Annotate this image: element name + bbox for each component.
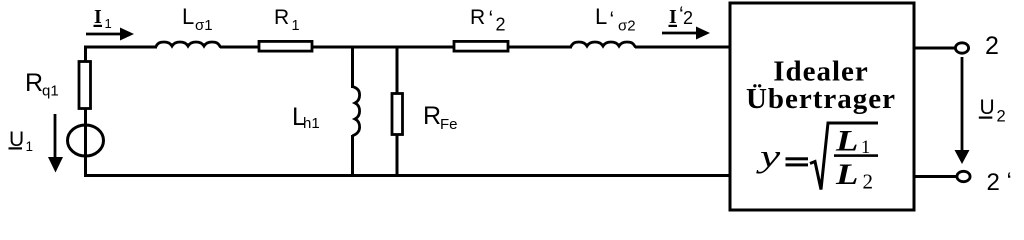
- svg-text:L: L: [595, 4, 607, 29]
- svg-text:1: 1: [105, 16, 112, 31]
- wire between R1 and R'2: [313, 46, 453, 49]
- svg-text:q1: q1: [42, 83, 59, 100]
- svg-text:2: 2: [683, 8, 693, 28]
- voltage arrow U2: [955, 57, 970, 164]
- svg-text:R: R: [470, 6, 485, 29]
- terminal 2 circle: [955, 43, 968, 53]
- svg-text:2: 2: [997, 108, 1006, 126]
- svg-text:h1: h1: [303, 115, 320, 132]
- wire top-left corner vertical: [84, 47, 87, 62]
- svg-text:1: 1: [292, 18, 300, 34]
- resistor Rq1: [79, 62, 91, 109]
- terminal 2' circle: [957, 171, 970, 181]
- bottom wire: [84, 174, 730, 177]
- svg-text:y: y: [755, 139, 780, 174]
- svg-text:‘: ‘: [1007, 168, 1012, 195]
- radical sign: [810, 123, 878, 190]
- svg-text:L: L: [182, 4, 194, 29]
- wire between Lsigma1 and R1: [220, 46, 258, 49]
- svg-text:R: R: [274, 6, 289, 29]
- svg-text:‘: ‘: [610, 8, 615, 31]
- terminal 2 wire: [914, 47, 956, 50]
- source U1 circle: [68, 125, 104, 156]
- resistor R1: [259, 41, 312, 51]
- svg-text:R: R: [25, 69, 43, 97]
- shunt resistor RFe branch wire top: [396, 46, 399, 93]
- label L'sigma2: [595, 4, 636, 35]
- ideal transformer box: [730, 3, 914, 210]
- svg-text:Übertrager: Übertrager: [746, 83, 896, 115]
- label U1: [9, 128, 34, 154]
- inductor Lsigma1: [156, 42, 221, 48]
- wire Lsigma2 to box: [635, 46, 730, 49]
- svg-text:U: U: [980, 96, 995, 119]
- wire top segment left: [84, 46, 157, 49]
- wire through source to bottom: [84, 125, 87, 177]
- wire between R'2 and Lsigma2: [509, 46, 572, 49]
- wire Lh1 to bottom: [351, 135, 354, 177]
- voltage arrow U1: [48, 114, 63, 173]
- wire RFe to bottom: [396, 135, 399, 177]
- svg-text:2: 2: [987, 169, 1000, 196]
- svg-text:L: L: [835, 158, 858, 191]
- formula equals: [786, 157, 809, 160]
- wire resistor to source: [84, 108, 87, 126]
- current label I1: [94, 6, 112, 31]
- svg-text:Fe: Fe: [440, 116, 458, 133]
- formula y = sqrt(L1/L2): [755, 123, 878, 194]
- fraction bar: [834, 154, 878, 157]
- label Rq1: [25, 69, 59, 100]
- svg-text:σ1: σ1: [195, 17, 213, 34]
- inductor Lh1 coil: [353, 87, 360, 136]
- svg-text:1: 1: [26, 139, 34, 154]
- svg-text:σ2: σ2: [618, 18, 636, 35]
- svg-text:L: L: [835, 125, 858, 158]
- label U2: [979, 96, 1006, 126]
- terminal 2' wire: [914, 175, 957, 178]
- resistor RFe: [392, 94, 403, 135]
- label R1: [274, 6, 300, 34]
- label Lh1: [292, 103, 320, 132]
- current label I'2: [669, 3, 694, 28]
- shunt inductor Lh1 branch wire: [351, 46, 354, 88]
- inductor L'sigma2: [571, 42, 636, 48]
- svg-text:2: 2: [863, 170, 874, 194]
- svg-text:I: I: [669, 6, 677, 28]
- label R'2: [470, 6, 506, 35]
- svg-text:‘: ‘: [489, 7, 494, 30]
- svg-text:2: 2: [985, 32, 999, 60]
- current arrow I'2: [662, 27, 710, 40]
- current arrow I1: [86, 28, 134, 41]
- terminal 2' label: [987, 168, 1012, 196]
- label Lsigma1: [182, 4, 213, 34]
- svg-text:I: I: [94, 6, 102, 28]
- svg-text:2: 2: [496, 15, 506, 35]
- svg-text:R: R: [423, 102, 441, 130]
- resistor R'2: [454, 41, 508, 51]
- label RFe: [423, 102, 458, 133]
